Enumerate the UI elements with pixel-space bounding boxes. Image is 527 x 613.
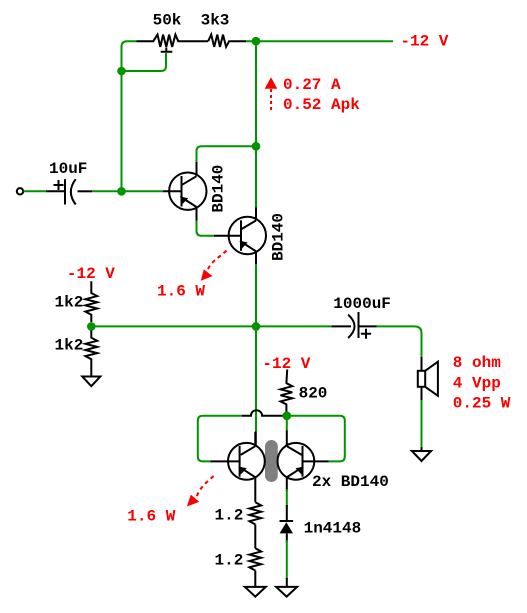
capacitor C1 10uF [46,190,65,192]
svg-text:820: 820 [299,385,328,403]
transistor Q1 BD140 [163,190,182,192]
transistor Q4 BD140 [303,460,329,462]
wire cap to speaker [377,326,422,358]
svg-text:BD140: BD140 [269,213,287,261]
wire 1.2 to ground [254,571,256,587]
svg-text:4 Vpp: 4 Vpp [453,374,501,392]
svg-text:BD140: BD140 [209,165,227,213]
node Q1 rail junction [252,142,261,151]
svg-text:-12 V: -12 V [400,33,448,51]
transistor Q3 BD140 [211,460,240,462]
svg-text:0.52 Apk: 0.52 Apk [283,96,360,114]
svg-text:8 ohm: 8 ohm [453,354,501,372]
wire output loop top left [203,415,242,417]
ground right [276,587,297,597]
node divider junction [87,322,96,331]
wire output loop right side [329,416,345,462]
wire rail to Q3 [255,432,257,445]
resistor R1 50k [137,35,209,47]
svg-text:10uF: 10uF [49,160,87,178]
wire hop over rail [242,410,283,416]
wire Q1 collector to rail [197,146,257,162]
ground left [245,587,266,597]
resistor R5 820 [281,370,293,412]
wire left vertical rail to input junction [121,71,123,191]
wire rail junction down to Q2 [255,41,257,208]
svg-text:1.2: 1.2 [215,551,244,569]
svg-text:0.25 W: 0.25 W [453,395,511,413]
arrow dashed to Q2 [208,251,227,271]
node tap junction [117,67,126,76]
resistor R2 3k3 [208,35,246,47]
wire Q4 emitter to 820 node [286,420,288,431]
node 820 junction [282,411,291,420]
wire Q2 collector down rail [255,264,257,432]
wire to -12V top [246,40,393,42]
node rail mid junction [252,322,261,331]
arrow dashed to Q3 [197,476,214,497]
diode D1 1n4148 [280,520,294,522]
svg-text:1000uF: 1000uF [333,295,391,313]
svg-text:1.2: 1.2 [215,506,244,524]
svg-text:1k2: 1k2 [55,337,84,355]
wire speaker to ground [421,400,423,449]
wire output loop top right [291,415,340,417]
wire output loop left side [198,416,211,462]
wire top rail left corner to tap junction [122,41,137,71]
wire divider to rail [96,325,332,327]
wire diode to ground [286,540,288,579]
wire cap to Q1 base [92,190,163,192]
wire Q4 collector to diode [286,477,288,491]
resistor R7 1.2 lower [249,548,261,570]
svg-text:0.27 A: 0.27 A [283,76,341,94]
svg-text:2x BD140: 2x BD140 [312,473,389,491]
wire input to cap [24,190,47,192]
input terminal [17,188,23,194]
node top rail junction [252,37,261,46]
thermal coupling bar [265,440,278,482]
svg-text:3k3: 3k3 [201,12,230,30]
node input junction [117,187,126,196]
capacitor C2 1000uF [332,325,351,327]
svg-text:-12 V: -12 V [67,265,115,283]
resistor R1 50k wiper tap [161,48,173,52]
transistor Q2 BD140 [214,235,241,237]
speaker LS1 [421,357,423,371]
resistor R3 1k2 upper [85,281,97,322]
wire Q1 emitter to Q2 base [197,221,215,236]
ground divider [82,377,100,387]
wire 50k tap run [122,53,167,71]
resistor R4 1k2 lower [85,331,97,376]
svg-text:1k2: 1k2 [55,294,84,312]
current arrow 0.27A [265,77,278,89]
resistor R6 1.2 upper [249,502,261,524]
svg-text:1.6 W: 1.6 W [127,507,175,525]
svg-text:1n4148: 1n4148 [304,520,362,538]
svg-text:50k: 50k [153,12,182,30]
wire between 1.2 resistors [254,524,256,548]
svg-text:1.6 W: 1.6 W [157,283,205,301]
ground speaker [412,451,431,461]
